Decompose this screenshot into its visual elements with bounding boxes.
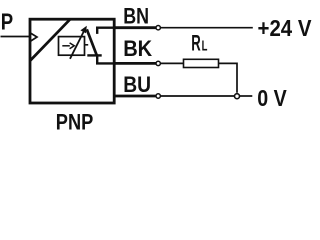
sensor box — [30, 19, 114, 103]
wire 0V left segment — [160, 95, 234, 97]
svg-text:0 V: 0 V — [257, 85, 287, 111]
svg-text:R: R — [191, 31, 201, 56]
big diagonal — [30, 19, 70, 60]
wire BK internal lead — [97, 55, 114, 63]
input arrowhead — [30, 33, 37, 42]
adjustment arrow — [70, 31, 84, 59]
terminal circle BK — [156, 61, 160, 65]
wire BN thick — [114, 26, 156, 29]
wire base stub — [85, 44, 89, 46]
svg-text:BK: BK — [123, 36, 152, 61]
transistor base bar — [87, 54, 101, 56]
resistor RL — [184, 59, 219, 67]
wire +24V — [160, 27, 253, 29]
wire 0V right segment — [240, 95, 252, 97]
junction circle — [235, 94, 240, 99]
wire resistor to corner — [219, 63, 238, 92]
svg-text:PNP: PNP — [56, 109, 94, 134]
arrow inside rect — [62, 45, 70, 47]
svg-text:+24 V: +24 V — [258, 15, 312, 41]
terminal circle BN — [156, 26, 160, 30]
wire BK to resistor — [160, 62, 183, 64]
transistor Q1 emitter diagonal — [87, 29, 97, 55]
svg-text:BU: BU — [123, 72, 151, 97]
terminal circle BU — [156, 94, 160, 98]
svg-text:BN: BN — [123, 4, 149, 29]
wire BK thick — [114, 62, 156, 65]
wire BU thick — [114, 95, 156, 98]
sensing element rect — [59, 37, 85, 56]
svg-text:P: P — [1, 9, 13, 35]
wire P input — [1, 36, 31, 38]
wire BN internal lead — [97, 28, 114, 34]
svg-text:L: L — [202, 38, 208, 55]
